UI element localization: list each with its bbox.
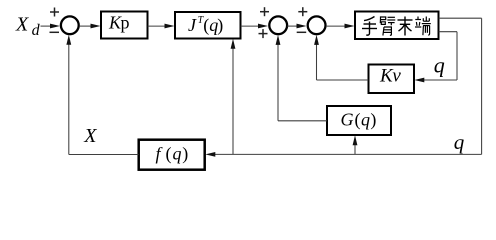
plus sign at S1 top-left [50,8,59,17]
summing junction S2 [269,16,287,34]
wire arm box lower output tap [439,31,457,33]
wire up into S3 [316,42,318,80]
svg-text:p: p [121,13,130,33]
minus sign at S1 bottom-left [50,31,60,33]
wire junction to JT bottom [232,46,234,155]
svg-text:G: G [341,110,354,130]
wire f(q) output left [69,154,139,156]
minus sign at S3 bottom-left [297,31,307,33]
svg-text:X: X [83,125,97,147]
hanzi bi [380,17,395,36]
wire left into Kv [422,79,457,81]
arrow into S3 left [297,24,307,29]
block arm-end (shou bi mo duan) [355,12,439,40]
svg-text:(: ( [166,144,172,165]
svg-text:J: J [188,15,197,35]
wire Kv output left [317,79,369,81]
svg-text:q: q [434,52,445,77]
arrow into S1 bottom [66,35,71,45]
svg-text:): ) [217,15,223,36]
svg-text:(: ( [355,110,361,131]
arrow into S1 left [50,24,60,29]
wire up into S2 [277,42,279,121]
hanzi duan [415,17,431,36]
arrow into G(q) bottom [353,135,358,145]
svg-text:q: q [173,144,182,164]
block Kp [101,12,148,39]
svg-text:): ) [370,110,376,131]
arrow into JT bottom [231,39,236,49]
wire Kp to JT box [148,25,166,27]
wire right edge vertical down [481,18,483,154]
plus sign at S3 top-left [298,7,307,16]
wire S1 to Kp box [79,25,92,27]
wire down to Kv level [456,32,458,80]
wire S3 to arm box [326,25,346,27]
block JT(q) Jacobian transpose [175,12,241,39]
plus sign at S2 top-left [260,7,269,16]
svg-text:q: q [454,130,465,154]
arrow into Kv right [414,78,424,83]
wire S2 to S3 [287,25,298,27]
arrow into S2 left [258,24,268,29]
svg-text:X: X [15,14,29,36]
hanzi mo [398,17,413,36]
svg-text:d: d [32,22,41,39]
arrow into JT box [165,24,175,29]
block Kv [369,65,415,94]
summing junction S1 [61,16,79,34]
arrow into arm box [345,24,355,29]
arrow into S3 bottom [314,35,319,45]
hanzi shou [362,17,377,36]
wire JT to summing junction S2 [241,25,260,27]
summing junction S3 [308,16,326,34]
svg-text:): ) [182,144,188,165]
svg-text:q: q [361,110,370,130]
wire junction to G(q) bottom [354,142,356,154]
wire arm box upper output to right edge [439,17,482,19]
plus sign at S2 bottom-left [259,29,268,38]
wire Xd to summing junction S1 [41,25,53,27]
wire G(q) output left [278,120,327,122]
block G(q) [327,106,391,135]
arrow into Kp [91,24,101,29]
block f(q) [139,140,205,170]
wire up into S1 [68,42,70,155]
arrow into S2 bottom [276,35,281,45]
wire bottom feedback run to f(q) [213,153,482,155]
svg-text:v: v [392,66,401,87]
arrow into f(q) right [205,152,215,157]
